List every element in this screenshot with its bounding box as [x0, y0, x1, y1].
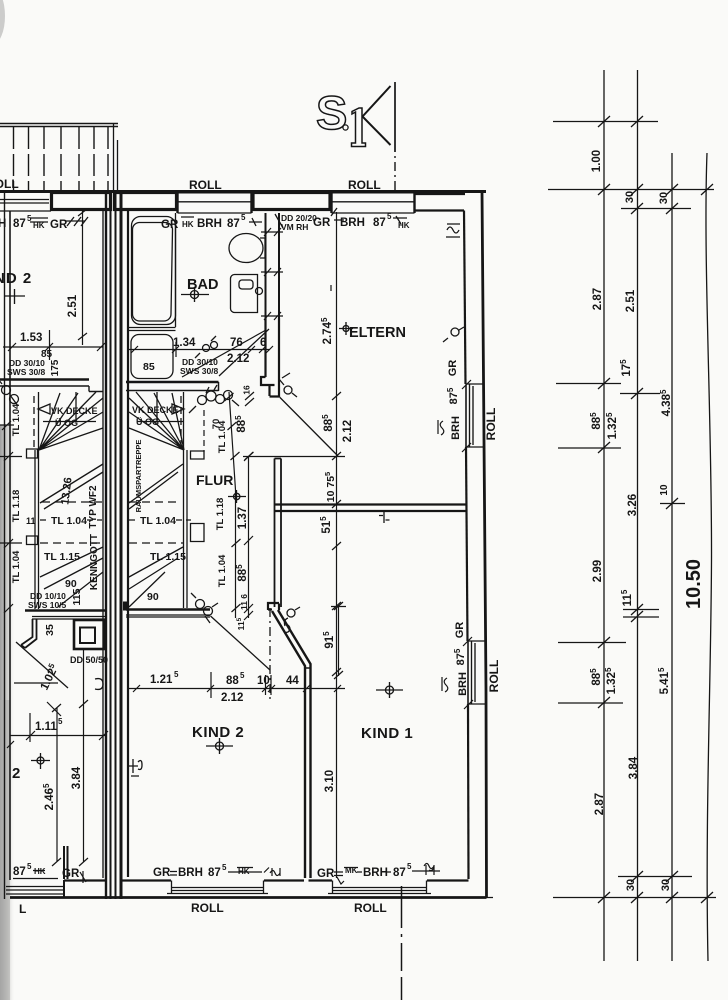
dim line for 2.51 [78, 209, 87, 345]
tick row y642.5 on A [558, 637, 626, 648]
svg-text:GR: GR [317, 868, 335, 880]
WC toilet [229, 234, 265, 263]
dim ticks under left window [30, 217, 88, 226]
chain line C x672 [671, 153, 673, 961]
svg-text:2.12: 2.12 [342, 420, 354, 442]
washbasin left (85) [131, 335, 173, 379]
tick row y876.5 on B C [618, 871, 692, 882]
section line bottom [401, 886, 403, 1000]
tick row y393.5 on B [620, 388, 660, 399]
inner line mid (window to KIND1 window) [466, 447, 468, 641]
KIND1 window x332-427 [328, 881, 431, 895]
svg-text:BRH: BRH [363, 867, 388, 879]
dashed walking line [33, 396, 35, 450]
small wall stub bottom-left room [64, 846, 68, 879]
thin shelf line [14, 683, 61, 716]
svg-text:S: S [316, 86, 347, 139]
svg-text:90: 90 [65, 578, 77, 590]
svg-text:TL 1.04: TL 1.04 [217, 554, 228, 587]
DD 10/10 SWS 10/5 left [28, 591, 67, 610]
svg-text:ROLL: ROLL [484, 408, 498, 441]
svg-text:GR: GR [454, 622, 466, 639]
svg-text:35: 35 [44, 624, 56, 636]
KIND1 inner segment [309, 879, 333, 881]
left unit window x10-64 [6, 887, 64, 895]
tick row y448 on A [558, 442, 621, 453]
svg-text:ROLL: ROLL [487, 660, 501, 693]
svg-text:2.12: 2.12 [221, 692, 243, 704]
direction double diagonal [129, 464, 183, 509]
dashed walking line [180, 396, 182, 450]
L-jog wall below stairs [21, 619, 37, 648]
bottom annotation left unit: 87/5 HK GR [13, 862, 80, 880]
balcony front edge double line [0, 124, 118, 127]
VK DECKE / Ü OG left [51, 406, 98, 428]
stringer notches [27, 449, 38, 545]
KIND2 inner segment window to div wall [264, 879, 304, 881]
chain line A x604 [603, 70, 605, 961]
svg-text:90: 90 [147, 591, 159, 603]
ELTERN south wall band [275, 505, 468, 512]
svg-text:1.37: 1.37 [237, 507, 249, 529]
balcony hatch lines [14, 127, 109, 190]
right unit plaster face [127, 211, 129, 877]
svg-text:10.50: 10.50 [683, 559, 705, 609]
step edge vertical + horizontal [137, 392, 183, 422]
svg-text:KENNGOTT: KENNGOTT [89, 534, 100, 590]
svg-text:BRH: BRH [450, 416, 462, 440]
ELTERN window box x331-415 [332, 193, 415, 213]
svg-text:ROLL: ROLL [348, 178, 381, 192]
right stringer [184, 392, 188, 608]
left unit plaster face [102, 211, 104, 878]
BAD center cross [181, 287, 209, 302]
scanner corner blob top-left [0, 0, 5, 44]
svg-text:KIND 2: KIND 2 [192, 724, 244, 741]
svg-text:GR: GR [447, 360, 459, 377]
svg-text:115: 115 [71, 588, 83, 605]
direction double diagonal [40, 464, 103, 509]
svg-text:2.87: 2.87 [594, 793, 606, 815]
BAD door swing [195, 329, 269, 376]
svg-text:30: 30 [624, 191, 636, 203]
svg-text:HK: HK [182, 220, 194, 229]
svg-text:2.51: 2.51 [67, 294, 79, 317]
ELTERN center cross [339, 322, 353, 335]
DD 30/10 SWS 30/8 right [180, 357, 219, 376]
svg-text:3.84: 3.84 [71, 766, 83, 789]
svg-text:30: 30 [625, 879, 637, 891]
svg-text:BAD: BAD [187, 277, 218, 293]
inner line lower [467, 704, 470, 879]
svg-text:1.34: 1.34 [173, 337, 196, 349]
svg-text:85: 85 [143, 361, 155, 373]
left stairs bottom wall band [25, 611, 105, 620]
svg-text:1.21: 1.21 [150, 674, 173, 686]
svg-text:VK DECKE: VK DECKE [132, 405, 179, 415]
svg-text:BRH: BRH [340, 217, 365, 229]
svg-text:ND 2: ND 2 [0, 270, 32, 287]
svg-text:10 755: 10 755 [323, 472, 337, 502]
chimney DD 50/50 [74, 620, 104, 649]
KIND2 window x171-264 [167, 881, 268, 895]
section line top [394, 82, 396, 191]
svg-text:6: 6 [260, 337, 266, 349]
left unit wall box segment [52, 193, 111, 210]
center cross ND2 [5, 289, 25, 304]
svg-text:11: 11 [26, 516, 36, 526]
ND2 south wall band [0, 380, 103, 392]
BAD south wall band [126, 382, 219, 391]
lower diagonals [129, 547, 183, 607]
svg-text:5: 5 [241, 213, 246, 222]
svg-text:11 6: 11 6 [239, 594, 249, 610]
wall basin right [231, 275, 263, 313]
svg-text:1.11: 1.11 [35, 721, 57, 733]
inner line upper (to ELTERN window) [464, 211, 466, 385]
outer line full [10, 896, 487, 899]
BAD bottom dim line [128, 342, 273, 357]
FLUR center phi mark [228, 490, 246, 503]
section arrow triangle [363, 86, 391, 145]
leader diagonal to ELTERN door [182, 330, 266, 377]
ELTERN right window y384-447 [466, 384, 484, 447]
KIND2 door swing diagonal [211, 616, 271, 670]
wall ticks at basin [261, 228, 283, 320]
window annotation row ELTERN: DD 20/20 VM RH GR BRH 87/5 HK [281, 213, 317, 232]
svg-text:3.10: 3.10 [324, 770, 336, 792]
tick marks BAD window row [181, 217, 262, 226]
right stairs bottom wall band [126, 610, 210, 618]
svg-text:1.53: 1.53 [20, 332, 42, 344]
svg-text:Ü OG: Ü OG [136, 417, 159, 427]
KIND1 inner segment to corner [427, 879, 469, 881]
svg-text:2.99: 2.99 [592, 560, 604, 582]
outer line [482, 191, 487, 898]
svg-text:5: 5 [387, 212, 392, 221]
dashed mid lines [129, 501, 180, 503]
lower diagonals [40, 547, 103, 607]
small arrow triangle top [38, 404, 50, 414]
svg-text:5: 5 [27, 862, 32, 871]
door swing diagonal lower-left [16, 642, 68, 688]
svg-text:5: 5 [222, 863, 227, 872]
main vertical dim line through ELTERN/KIND1 [243, 212, 345, 878]
bathtub inner [132, 223, 172, 322]
stair fan upper (winders) [39, 392, 103, 450]
svg-text:44: 44 [286, 675, 299, 687]
svg-text:TL 1.18: TL 1.18 [11, 490, 22, 523]
svg-text:L: L [19, 902, 26, 916]
ELTERN west wall (to FLUR) [275, 459, 282, 608]
KIND2 dim row [129, 672, 345, 698]
svg-text:87: 87 [227, 218, 240, 230]
svg-text:TL 1.04: TL 1.04 [11, 550, 22, 583]
top wall outer line full [0, 190, 486, 193]
svg-text:70: 70 [211, 419, 222, 430]
svg-text:TL 1.15: TL 1.15 [150, 551, 186, 563]
west wall lines [5, 192, 11, 899]
svg-text:175: 175 [50, 359, 61, 376]
svg-text:TYP WF2: TYP WF2 [88, 485, 99, 529]
dashed mid lines [42, 501, 103, 503]
center mark below wall [379, 512, 390, 523]
bathtub outer [132, 217, 176, 325]
svg-text:5: 5 [58, 717, 63, 726]
svg-text:SWS 30/8: SWS 30/8 [7, 367, 46, 377]
svg-text:2.12: 2.12 [227, 353, 249, 365]
svg-text:87: 87 [13, 866, 26, 878]
KIND1 west diagonal wall [268, 603, 311, 878]
left unit window (cut) in top wall [0, 200, 51, 212]
svg-text:SWS 10/5: SWS 10/5 [28, 600, 67, 610]
door circles at left cut edge [0, 379, 19, 406]
svg-text:TL 1.04: TL 1.04 [51, 515, 87, 527]
svg-text:16: 16 [242, 385, 252, 395]
text DD 30/10 SWS 30/8 [7, 358, 46, 377]
small arrow triangle top [172, 404, 184, 414]
top wall right segment to corner [415, 194, 465, 211]
svg-text:TL 1.15: TL 1.15 [44, 551, 80, 563]
scanner edge shadow left [0, 425, 15, 1000]
svg-text:10: 10 [257, 675, 270, 687]
svg-text:BRH: BRH [178, 867, 203, 879]
svg-text:BRH: BRH [457, 672, 469, 696]
KIND1 right window y641-704 [468, 641, 487, 704]
squiggle symbols near right wall [443, 224, 464, 342]
window edge ticks [462, 380, 473, 709]
window annotation row BAD: GR HK BRH 87/5 [161, 213, 246, 231]
svg-text:GR: GR [153, 867, 171, 879]
svg-text:2.87: 2.87 [592, 288, 604, 310]
stair dim line x229-236 [204, 392, 254, 618]
svg-text:87: 87 [373, 217, 386, 229]
tick row y383.5 on A [556, 378, 621, 389]
dim line 1.53 [3, 330, 105, 360]
svg-text:GR: GR [62, 868, 80, 880]
stringer notch [191, 451, 205, 542]
svg-text:ROLL: ROLL [189, 178, 222, 192]
svg-text:ELTERN: ELTERN [349, 325, 406, 341]
svg-text:ROLL: ROLL [0, 177, 19, 191]
svg-text:HK: HK [34, 867, 46, 876]
wall box segment x252-331 [253, 193, 330, 210]
KIND2 corner at party wall [123, 602, 129, 611]
svg-text:1.00: 1.00 [591, 150, 603, 172]
svg-text:VM RH: VM RH [281, 222, 308, 232]
svg-text:GR: GR [313, 217, 331, 229]
double tick rows y608/616 on B [623, 604, 659, 622]
svg-text:88: 88 [226, 675, 239, 687]
svg-text:ROLL: ROLL [354, 901, 387, 915]
KIND2 west wall heater mark [128, 759, 142, 776]
svg-text:H: H [0, 218, 6, 230]
period outline [343, 125, 348, 130]
door leaf dash-dot line [269, 608, 271, 702]
BAD east wall jog piece [261, 318, 279, 397]
bottom annotation KIND1: GR MK BRH 87/5 [317, 862, 412, 880]
svg-text:RAUMSPARTREPPE: RAUMSPARTREPPE [134, 440, 143, 513]
chain line B x637.5 [637, 70, 639, 961]
step edge vertical + horizontal [43, 392, 96, 422]
svg-text:TL 1.18: TL 1.18 [215, 498, 226, 531]
BAD door swing circles in FLUR [189, 385, 239, 413]
ticks on west wall [0, 421, 22, 613]
tick row y208.5 inner wall [621, 203, 691, 214]
svg-text:5: 5 [240, 671, 245, 680]
tick y503 on C (10) [660, 498, 685, 509]
svg-text:87: 87 [13, 218, 26, 230]
svg-text:2.51: 2.51 [625, 289, 637, 312]
svg-text:5: 5 [407, 862, 412, 871]
KIND2 center cross [206, 738, 233, 754]
BAD window box x177-252 [178, 193, 252, 213]
svg-text:VK DECKE: VK DECKE [51, 406, 98, 416]
svg-text:BRH: BRH [197, 218, 222, 230]
svg-text:2: 2 [12, 765, 20, 782]
svg-text:TL 1.04: TL 1.04 [11, 403, 22, 436]
svg-text:Ü OG: Ü OG [55, 418, 78, 428]
svg-text:5: 5 [174, 670, 179, 679]
party wall head [111, 192, 121, 210]
KIND1 center cross [376, 682, 403, 698]
tick row y189.5 top wall [548, 184, 714, 195]
KIND1 door hinge circle + mark [284, 607, 300, 633]
left stringer [35, 392, 39, 609]
svg-text:DD 50/50: DD 50/50 [70, 655, 108, 665]
svg-text:GR: GR [161, 219, 179, 231]
svg-text:TL 1.04: TL 1.04 [140, 515, 176, 527]
svg-text:30: 30 [660, 879, 672, 891]
FLUR dim line vertical [244, 452, 253, 620]
VK DECKE / Ü OG right [132, 405, 179, 427]
svg-text:KIND 1: KIND 1 [361, 725, 413, 742]
svg-text:FLUR: FLUR [196, 472, 233, 488]
svg-text:87: 87 [208, 867, 221, 879]
bottom annotation KIND2: GR BRH 87/5 HK [153, 863, 250, 879]
svg-text:87: 87 [393, 867, 406, 879]
KIND2 door circles [191, 593, 218, 623]
svg-text:3.84: 3.84 [628, 756, 640, 779]
BAD wall box segment x113-177 [115, 193, 177, 210]
room center phi lower-left [31, 753, 50, 769]
chain line D x707 (wavy) [706, 153, 712, 961]
BAD east wall [261, 213, 283, 320]
svg-text:10: 10 [659, 484, 670, 496]
stair fan upper [129, 392, 184, 450]
ELTERN door hinge + swing [279, 373, 338, 456]
left unit inner segments [64, 879, 106, 881]
tick row y703 on A [558, 697, 623, 708]
tick row y121 balcony [553, 116, 658, 127]
svg-text:30: 30 [658, 192, 670, 204]
balcony side wall line [114, 123, 118, 190]
KIND2 inner segment party to window [121, 879, 171, 881]
svg-text:ROLL: ROLL [191, 901, 224, 915]
numeral 1 outline [352, 108, 366, 147]
svg-text:3.26: 3.26 [627, 494, 639, 516]
bracket mark on party wall [95, 679, 103, 690]
bathtub enclosure [128, 213, 176, 331]
tick row y897.5 bottom wall [487, 892, 717, 903]
window annotation row left unit: H 87/5 HK GR [0, 214, 68, 231]
